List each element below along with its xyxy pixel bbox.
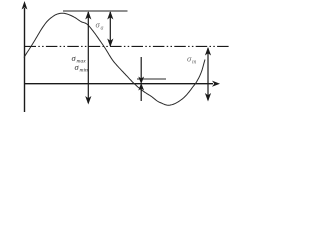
sigma_a dimension arrow [107,11,113,47]
sigma_m dimension arrow [205,47,211,102]
sigma_max dimension arrow [85,11,91,105]
t axis (horizontal) [25,81,221,87]
sigma_min marker: lower arrow (up) [138,83,144,101]
mean stress dash-dot line [25,45,230,47]
peak tangent line (grey) [63,10,128,12]
svg-text:m: m [192,60,197,66]
svg-text:min: min [80,68,89,74]
sigma_min marker: tick line [137,78,166,80]
svg-text:a: a [101,26,104,32]
stress sine curve [24,13,205,105]
sigma axis (vertical) [22,1,28,112]
sigma_min marker: upper arrow (down) [138,57,144,84]
